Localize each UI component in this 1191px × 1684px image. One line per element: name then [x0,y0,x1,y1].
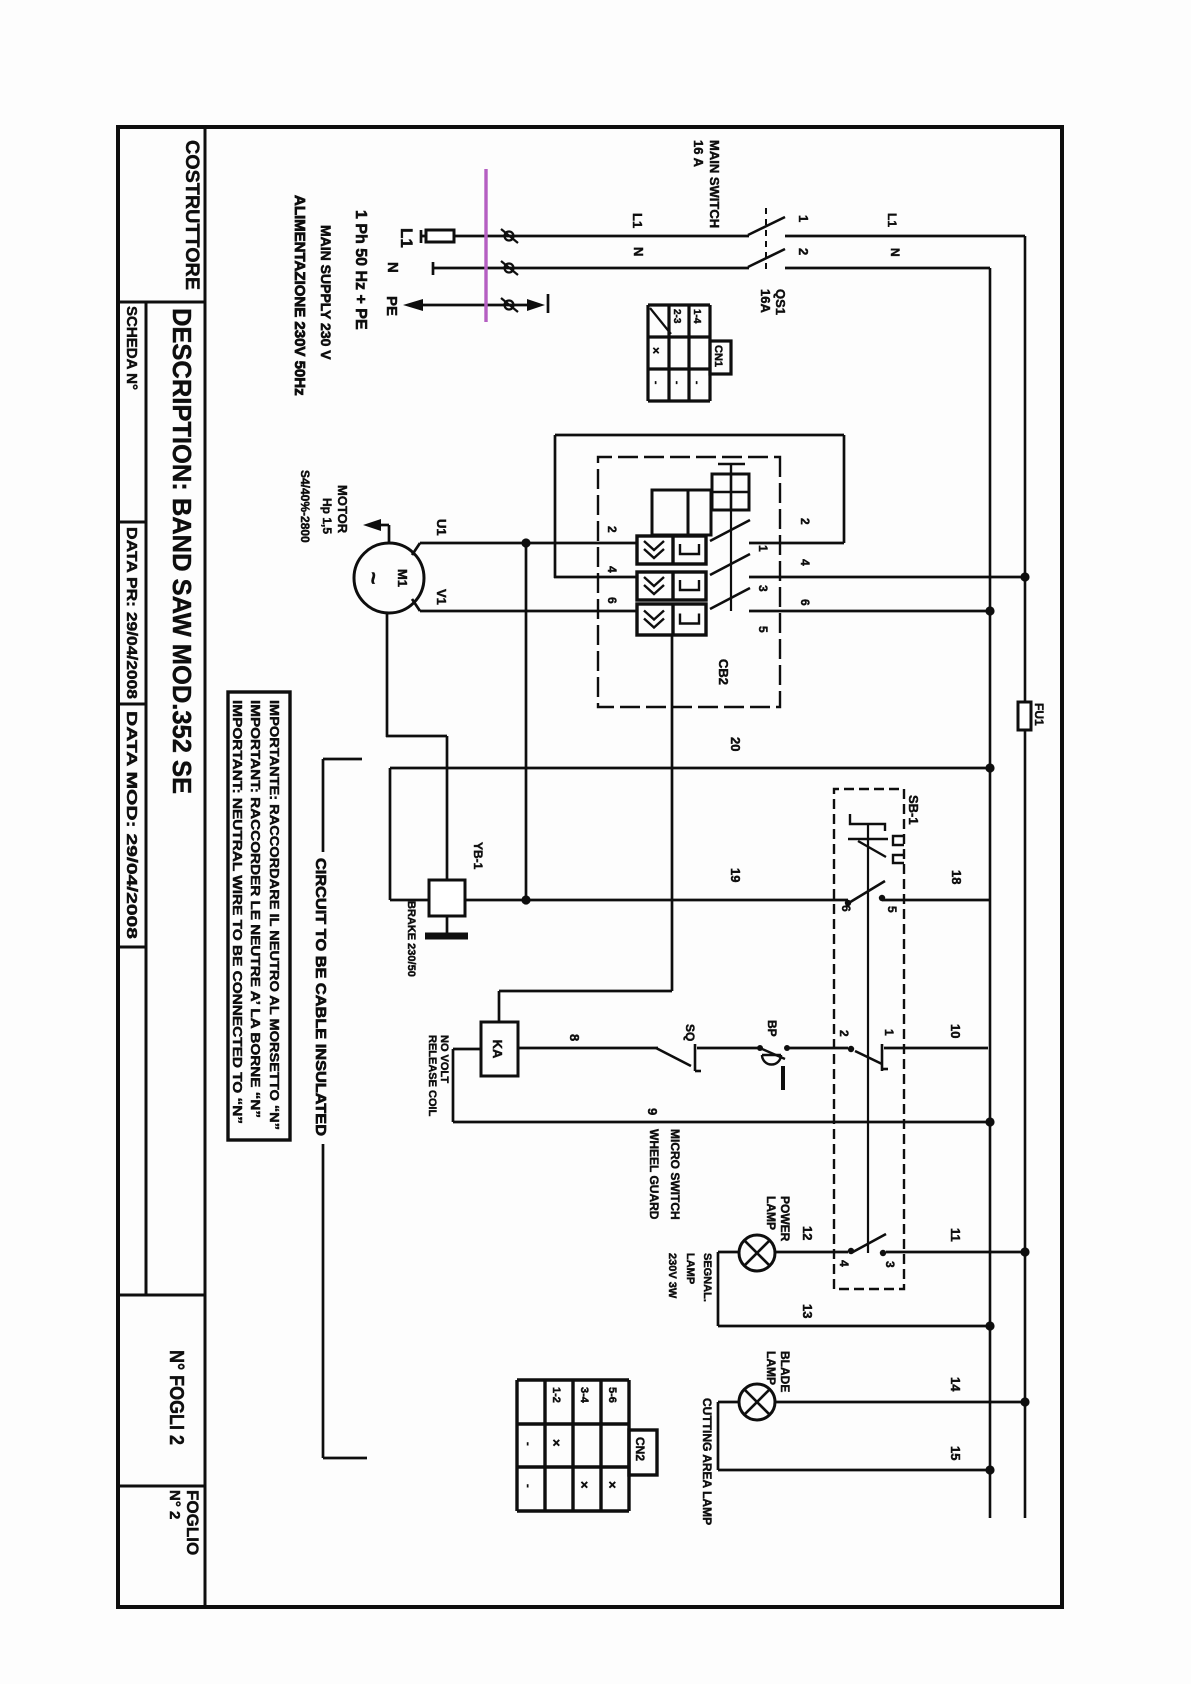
svg-text:5-6: 5-6 [606,1387,618,1403]
svg-text:19: 19 [728,868,743,882]
PE arrow bottom [403,299,423,311]
svg-text:6: 6 [798,599,812,606]
svg-text:BRAKE 230/50: BRAKE 230/50 [405,901,417,977]
svg-text:ALIMENTAZIONE 230V 50Hz: ALIMENTAZIONE 230V 50Hz [291,195,308,396]
motor PE arrow [363,519,381,531]
wire N lower [432,267,749,270]
CB2 hook wire top [843,435,846,543]
svg-text:MAIN SWITCH: MAIN SWITCH [707,140,722,228]
insulation line end [323,1457,367,1460]
terminal tick L1 [420,230,423,243]
junction brake branch [521,895,530,904]
KA bottom wire [453,1048,481,1051]
junction wire14 busL1 [1020,1397,1029,1406]
connector CN1 grid [708,305,711,401]
wire L1 lower [420,235,749,238]
wire 12 to lamp [775,1251,848,1254]
svg-text:1-2: 1-2 [550,1387,562,1403]
pressure switch BP dots [784,1045,790,1051]
boundary line purple [484,169,487,322]
wire 10 rung middle [787,1047,848,1050]
brake YB-1 square [429,880,465,916]
SB-1 contact 5-6 dots [879,895,885,901]
svg-text:3: 3 [883,1261,897,1268]
svg-text:NO VOLT: NO VOLT [438,1035,450,1083]
wire 8 lower [518,1047,658,1050]
junction wire20 busN [985,763,994,772]
lamp HL2 lower wire [718,1401,739,1404]
junction wire15 busN [985,1465,994,1474]
svg-text:5: 5 [885,906,899,913]
CB2 hook wire bottom [554,435,557,578]
CB2 wire pole1 upper [749,542,844,545]
SB-1 contact 1-2 blade [855,1051,882,1064]
CB2 aux wire down [499,990,672,993]
wire 18 rung lower [465,899,848,902]
svg-text:CN1: CN1 [712,345,724,367]
svg-text:BP: BP [765,1020,779,1037]
brake bottom bar [389,768,392,900]
CB2 aux wire horizontal [671,636,674,991]
title divider data mod [118,946,146,949]
border frame [118,127,1062,1607]
svg-text:M1: M1 [395,569,410,587]
title divider data pr [118,703,146,706]
svg-text:N: N [631,247,646,256]
wire 18 rung below brake [390,899,429,902]
SB-1 T bar [848,838,888,840]
SB-1 top tab b [893,855,904,863]
wire marker L1 [505,232,514,241]
svg-text:230V 3W: 230V 3W [666,1253,678,1299]
bus N [989,268,992,1518]
junction wire9 busN [985,1117,994,1126]
CB2 wire pole2 upper [749,576,1025,579]
lamp HL1 jog [717,1252,720,1326]
CB2 blade 1 [710,520,750,541]
switch QS1 blade pole1 [748,217,785,235]
svg-text:CIRCUIT TO BE CABLE INSULATED: CIRCUIT TO BE CABLE INSULATED [312,858,329,1136]
wire 8 segment [697,1047,762,1050]
CB2 wire pole3 lower [420,610,637,613]
junction pole3 busN [985,606,994,615]
svg-text:5: 5 [756,626,770,633]
connector CN2 tab [629,1430,657,1475]
switch QS1 link [765,208,767,272]
ground [425,933,468,940]
SB-1 contact 1-2 dot [848,1046,854,1052]
svg-text:3: 3 [756,585,770,592]
svg-text:IMPORTANT: RACCORDER LE NEUTRE: IMPORTANT: RACCORDER LE NEUTRE A’ LA BOR… [248,700,262,1118]
svg-text:18: 18 [949,870,964,884]
svg-text:LAMP: LAMP [764,1351,778,1385]
insulation line start [323,758,362,761]
svg-text:N° 2: N° 2 [166,1490,183,1519]
note box importante [228,692,290,1140]
CB2 blade 3 [710,588,750,609]
CB2 actuator square [712,474,749,510]
microswitch SQ blade [656,1048,691,1066]
svg-text:V1: V1 [434,589,449,605]
svg-text:N: N [888,248,902,257]
svg-text:8: 8 [567,1034,582,1041]
svg-text:FU1: FU1 [1032,703,1046,726]
svg-text:SB-1: SB-1 [906,795,921,825]
svg-text:16 A: 16 A [691,140,706,168]
svg-text:FOGLIO: FOGLIO [183,1490,202,1555]
svg-text:S4/40%-2800: S4/40%-2800 [298,470,312,543]
svg-text:9: 9 [645,1108,660,1115]
PE top bar [547,294,550,313]
PE arrow top [527,299,545,311]
title divider scheda [118,521,146,524]
CB2 wire pole3 upper [749,610,988,613]
wire 10 rung upper [884,1047,988,1050]
svg-text:×: × [605,1481,620,1489]
title divider fogli [118,1294,205,1297]
wire 14 upper [775,1401,1025,1404]
svg-text:DATA MOD: 29/04/2008: DATA MOD: 29/04/2008 [123,711,140,939]
insulation line b [322,1144,325,1458]
motor wire jog [386,735,447,738]
wire marker N [505,264,514,273]
svg-text:×: × [549,1439,564,1447]
wire 20 rung [390,767,991,770]
svg-text:MICRO SWITCH: MICRO SWITCH [668,1129,682,1220]
SB-1 aux blade [858,841,886,857]
svg-text:11: 11 [948,1228,963,1242]
svg-text:2: 2 [605,526,619,533]
svg-text:SEGNAL.: SEGNAL. [701,1253,713,1302]
svg-text:YB-1: YB-1 [471,842,485,870]
CB2 wire pole2 lower [554,576,637,579]
connector CN2 grid [627,1380,630,1511]
svg-text:1 Ph 50 Hz + PE: 1 Ph 50 Hz + PE [352,210,369,330]
svg-text:3-4: 3-4 [578,1387,590,1404]
svg-text:MAIN SUPPLY 230 V: MAIN SUPPLY 230 V [318,225,334,360]
svg-text:CUTTING AREA LAMP: CUTTING AREA LAMP [700,1398,714,1525]
CB2 trip linkage [730,510,732,611]
svg-text:L1: L1 [885,213,899,227]
svg-text:LAMP: LAMP [764,1196,778,1230]
svg-text:-: - [650,381,661,384]
svg-text:6: 6 [605,597,619,604]
SB-1 contact 1-2 bar [881,1044,884,1071]
junction U1 brake [521,538,530,547]
CB2 wire pole1 lower [420,542,637,545]
svg-text:PE: PE [383,296,400,316]
svg-text:CB2: CB2 [716,659,731,685]
connector CN1 tab [710,341,731,374]
wire 9 rung [453,1121,990,1124]
CB2 actuator T bar [718,463,745,466]
bus L1 [1024,236,1027,1518]
svg-text:1-4: 1-4 [691,309,702,324]
breaker CB2 dashed box [598,457,780,707]
svg-text:2: 2 [798,518,812,525]
fuse FU1 [1018,702,1031,730]
wire marker PE [505,301,514,310]
SB-1 contact 3-4 blade [851,1234,886,1253]
motor M1 circle [354,543,424,613]
svg-text:-: - [691,381,702,384]
svg-text:6: 6 [839,905,853,912]
junction pole2 bus [1020,572,1029,581]
CB2 mechanism box [652,490,711,535]
svg-text:×: × [649,347,663,354]
svg-text:-: - [522,1484,534,1488]
lamp HL2 jog [717,1402,720,1470]
pressure switch BP tick [781,1066,785,1090]
svg-text:DATA PR: 29/04/2008: DATA PR: 29/04/2008 [123,527,140,699]
svg-text:1: 1 [756,545,770,552]
svg-text:4: 4 [605,566,619,573]
svg-text:CN2: CN2 [633,1437,647,1461]
CB2 hook wire left [555,434,844,437]
svg-text:2: 2 [837,1030,851,1037]
SB-1 contact 3-4 dots [880,1250,886,1256]
title block top line [204,127,207,1607]
switch QS1 blade pole2 [748,249,785,267]
title cell divider costruttore [118,301,205,304]
svg-text:COSTRUTTORE: COSTRUTTORE [181,140,202,290]
wire N upper [785,267,990,270]
svg-text:BLADE: BLADE [778,1351,792,1392]
svg-text:SQ: SQ [683,1024,697,1041]
svg-text:U1: U1 [434,519,449,536]
svg-text:L1: L1 [397,228,416,248]
svg-text:N: N [384,262,401,273]
svg-text:POWER: POWER [778,1196,792,1242]
insulation line a [322,759,325,852]
svg-text:QS1: QS1 [773,289,788,315]
motor PE stub [388,525,391,543]
svg-text:L1: L1 [630,213,645,228]
pressure switch BP cup [762,1055,781,1065]
lamp HL1 lower wire [718,1251,739,1254]
CB2 aux wire to KA [498,991,501,1022]
brake feed wire [446,736,449,880]
brake ground stub [446,916,449,933]
svg-text:4: 4 [837,1260,851,1267]
svg-text:2: 2 [796,248,811,255]
svg-text:IMPORTANTE: RACCORDARE IL NEUT: IMPORTANTE: RACCORDARE IL NEUTRO AL MORS… [267,700,281,1130]
lamp HL2 [739,1384,775,1420]
switch SB-1 dashed box [834,789,904,1289]
relay coil KA [481,1022,518,1076]
wire PE [419,304,533,307]
wire 13 rung [718,1325,990,1328]
svg-text:IMPORTANT: NEUTRAL WIRE TO BE: IMPORTANT: NEUTRAL WIRE TO BE CONNECTED … [230,700,244,1124]
svg-text:LAMP: LAMP [684,1253,696,1284]
SB-1 center link [867,824,869,1253]
svg-text:12: 12 [800,1226,815,1240]
svg-text:1: 1 [882,1029,896,1036]
SB-1 top tab a [893,836,904,845]
svg-text:-: - [522,1442,534,1446]
svg-text:Hp 1,5: Hp 1,5 [320,498,334,534]
svg-text:DESCRIPTION: BAND SAW MOD.352: DESCRIPTION: BAND SAW MOD.352 SE [167,308,197,794]
svg-text:MOTOR: MOTOR [335,485,350,534]
svg-text:×: × [577,1481,592,1489]
terminal tick N [432,262,435,275]
CB2 pole box 2 [637,572,706,600]
wire 15 rung [718,1469,990,1472]
wire L1 upper [785,235,1025,238]
svg-text:RELEASE COIL: RELEASE COIL [426,1035,438,1117]
svg-text:WHEEL GUARD: WHEEL GUARD [647,1129,661,1220]
svg-text:2-3: 2-3 [671,309,682,324]
CB2 pole box 3 [637,604,706,635]
pressure switch BP blade [760,1048,785,1059]
svg-text:SCHEDA N°: SCHEDA N° [123,306,140,390]
svg-text:N° FOGLI 2: N° FOGLI 2 [165,1350,187,1445]
fuse FU2 [426,230,454,242]
CB2 blade 2 [710,554,750,575]
svg-text:16A: 16A [758,289,773,313]
title divider foglio [118,1485,205,1488]
svg-text:~: ~ [361,572,386,585]
motor wire out [386,613,389,737]
svg-text:-: - [671,381,682,384]
CB2 pole box 1 [637,536,706,564]
lamp HL1 [739,1235,775,1271]
SB-1 contact 5-6 blade [847,881,885,904]
CN1 cell diagonal [650,308,671,334]
microswitch SQ bar [694,1044,697,1071]
SB-1 step linkage [850,814,885,831]
junction wire13 busN [985,1321,994,1330]
svg-text:10: 10 [948,1024,963,1038]
svg-text:1: 1 [796,215,811,222]
KA jog wire [452,1049,455,1122]
svg-text:KA: KA [490,1040,505,1059]
junction wire11 busL1 [1020,1247,1029,1256]
svg-text:20: 20 [728,737,743,751]
title row divider [145,302,148,1295]
svg-text:13: 13 [800,1304,815,1318]
svg-text:15: 15 [948,1446,963,1460]
svg-text:4: 4 [798,559,812,566]
wire 18 rung upper [882,899,989,902]
svg-text:14: 14 [948,1377,963,1392]
brake branch wire [525,543,528,900]
wire 12 upper [886,1251,1025,1254]
